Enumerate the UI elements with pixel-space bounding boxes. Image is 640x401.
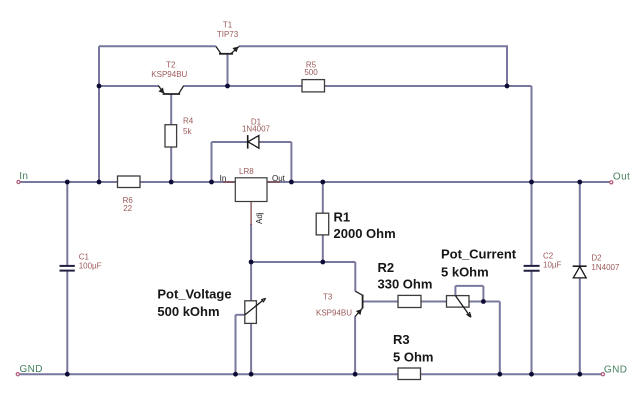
port dot Out — [610, 181, 613, 184]
wire T1 base — [227, 55, 229, 87]
potentiometer Pot_Current wiper arrow shaft — [456, 296, 470, 316]
svg-text:TIP73: TIP73 — [217, 30, 239, 39]
junction C1 on GND rail — [65, 372, 70, 377]
diode D2 triangle — [573, 267, 586, 278]
svg-text:500: 500 — [304, 68, 318, 77]
svg-text:KSP94BU: KSP94BU — [151, 70, 187, 79]
svg-text:C2: C2 — [543, 252, 554, 261]
transistor T2 base bar — [163, 93, 180, 95]
junction Pot_Voltage wiper on GND rail — [233, 372, 238, 377]
junction R4 on In rail — [169, 180, 174, 185]
junction C1 on In rail — [65, 180, 70, 185]
resistor R4 — [165, 125, 177, 147]
wire D2 bottom lead — [579, 278, 581, 374]
capacitor C1 bottom plate — [60, 270, 75, 272]
svg-text:5 kOhm: 5 kOhm — [441, 265, 489, 280]
wire Pot_Current wiper horizontal — [455, 285, 483, 287]
junction D2 on Out rail — [577, 180, 582, 185]
wire Pot_Current wiper drop — [482, 286, 484, 302]
svg-text:LR8: LR8 — [239, 167, 254, 176]
svg-text:5 Ohm: 5 Ohm — [393, 350, 433, 365]
wire In rail R6 to LR8 In pin — [140, 181, 235, 183]
transistor T1 emitter arrow — [232, 47, 238, 53]
resistor R2 — [398, 295, 421, 307]
junction R1 bottom node — [320, 260, 325, 265]
junction D1 right on Out rail — [289, 180, 294, 185]
potentiometer Pot_Current body — [447, 296, 470, 308]
svg-text:500 kOhm: 500 kOhm — [157, 304, 219, 319]
svg-text:Pot_Current: Pot_Current — [441, 247, 517, 262]
svg-text:Out: Out — [613, 172, 630, 183]
transistor T2 emitter arm — [158, 86, 164, 94]
transistor T3 emitter arrow — [356, 309, 362, 315]
wire Pot_Voltage wiper drop to GND — [235, 315, 237, 374]
capacitor C2 bottom plate — [524, 270, 540, 272]
junction T1 base on mid rail — [225, 84, 230, 89]
junction Pot_Voltage bottom on GND rail — [249, 372, 254, 377]
LR8 In pin stub — [223, 181, 235, 183]
svg-text:1N4007: 1N4007 — [591, 263, 620, 272]
junction C2 on GND rail — [529, 372, 534, 377]
diode D1 triangle — [248, 136, 259, 149]
wire R4 bottom to In rail — [170, 147, 172, 182]
transistor T3 base bar — [362, 295, 364, 309]
wire drop to T3 collector — [354, 262, 356, 291]
svg-text:C1: C1 — [79, 253, 90, 262]
resistor R5 — [302, 80, 325, 92]
svg-text:R4: R4 — [183, 117, 194, 126]
port dot GND right — [601, 373, 604, 376]
junction R1 on Out rail — [320, 180, 325, 185]
potentiometer Pot_Voltage wiper arrow shaft — [245, 300, 263, 315]
resistor R6 — [118, 176, 141, 188]
resistor R1 — [316, 213, 329, 235]
wire left riser x=99 — [98, 46, 100, 182]
wire Pot_Voltage wiper horizontal — [236, 314, 245, 316]
wire T3 emitter drop to GND — [354, 316, 356, 374]
port dot In — [17, 180, 20, 183]
transistor T3 collector arm — [355, 291, 362, 295]
wire C2 bottom to GND — [531, 271, 533, 374]
junction Adj node — [249, 260, 254, 265]
wire R1 top — [322, 182, 324, 213]
svg-text:T2: T2 — [166, 60, 176, 69]
svg-text:In: In — [220, 174, 227, 183]
svg-text:D2: D2 — [591, 253, 602, 262]
svg-text:T1: T1 — [223, 21, 233, 30]
transistor T1 emitter arm — [231, 46, 239, 53]
junction T3 emitter on GND rail — [353, 372, 358, 377]
wire mid rail to T2 emitter — [99, 85, 159, 87]
svg-text:GND: GND — [604, 364, 627, 375]
regulator U1 LR8 body — [235, 178, 267, 202]
wire D2 top lead — [579, 182, 581, 266]
svg-text:100µF: 100µF — [79, 261, 102, 270]
wire T2 base — [170, 95, 172, 126]
wire Pot_Voltage bottom lead — [250, 323, 252, 374]
potentiometer Pot_Voltage wiper arrowhead — [261, 298, 265, 302]
junction R3 right on GND rail — [497, 372, 502, 377]
wire GND rail left — [18, 373, 398, 375]
wire adj node horizontal — [251, 261, 355, 263]
junction D2 on GND rail — [577, 372, 582, 377]
wire Pot_Current right lead — [469, 301, 500, 303]
potentiometer Pot_Current wiper arrowhead — [467, 312, 471, 317]
wire R1 bottom — [322, 235, 324, 262]
junction mid rail x=99 — [97, 84, 102, 89]
resistor R3 — [398, 368, 421, 380]
svg-text:330 Ohm: 330 Ohm — [378, 277, 433, 292]
wire mid rail R5 to right corner — [325, 85, 532, 87]
LR8 Adj pin stub — [250, 202, 252, 226]
svg-text:5k: 5k — [183, 127, 192, 136]
svg-text:T3: T3 — [323, 293, 333, 302]
svg-text:1N4007: 1N4007 — [242, 125, 271, 134]
wire D1 anode side — [259, 141, 292, 143]
wire Pot_Current drop to GND — [499, 302, 501, 375]
wire T3 base to R2 — [363, 301, 398, 303]
svg-text:Out: Out — [272, 174, 286, 183]
wire C1 top lead — [66, 182, 68, 265]
wire top rail right segment — [239, 46, 507, 86]
wire D1 cathode side — [212, 141, 248, 143]
svg-text:Adj: Adj — [255, 212, 264, 224]
transistor T2 emitter arrow — [158, 88, 164, 94]
wire top rail left segment — [99, 45, 216, 47]
svg-text:2000 Ohm: 2000 Ohm — [334, 226, 396, 241]
wire mid rail T2 collector to R5 — [183, 85, 302, 87]
svg-text:KSP94BU: KSP94BU — [316, 309, 352, 318]
svg-text:Pot_Voltage: Pot_Voltage — [157, 286, 231, 301]
junction riser x=99 on In rail — [97, 180, 102, 185]
wire Pot_Voltage top lead — [250, 262, 252, 301]
wire R2 to Pot_Current — [421, 301, 447, 303]
junction C2 on Out rail — [529, 180, 534, 185]
port dot GND left — [16, 373, 19, 376]
transistor T1 base bar — [219, 53, 233, 55]
transistor T3 emitter arm — [355, 308, 362, 316]
capacitor C1 top plate — [60, 265, 75, 267]
svg-text:R2: R2 — [378, 260, 395, 275]
transistor T1 collector arm — [216, 46, 221, 53]
wire Adj drop — [250, 224, 252, 262]
svg-text:10µF: 10µF — [543, 261, 562, 270]
diode D2 cathode bar — [573, 265, 587, 267]
wire D1 right riser — [290, 142, 292, 182]
svg-text:In: In — [19, 171, 28, 182]
wire C1 bottom lead — [66, 271, 68, 374]
LR8 Out pin stub — [267, 181, 280, 183]
wire D1 left riser — [211, 142, 213, 182]
svg-text:GND: GND — [20, 364, 43, 375]
junction Pot_Current wiper node — [481, 299, 486, 304]
wire In rail port to R6 — [19, 181, 118, 183]
diode D1 cathode bar — [247, 135, 249, 149]
svg-text:R1: R1 — [334, 210, 351, 225]
junction D1 left on In rail — [209, 180, 214, 185]
wire GND rail right — [421, 373, 603, 375]
transistor T2 collector arm — [179, 86, 184, 94]
wire Pot_Current wiper riser — [454, 286, 456, 296]
wire Out rail — [267, 181, 611, 183]
capacitor C2 top plate — [524, 265, 540, 267]
potentiometer Pot_Voltage body — [245, 301, 257, 324]
junction mid rail x=507 — [505, 84, 510, 89]
svg-text:22: 22 — [123, 204, 132, 213]
wire right drop x=531.5 to C2 — [531, 86, 533, 265]
svg-text:R3: R3 — [393, 332, 410, 347]
